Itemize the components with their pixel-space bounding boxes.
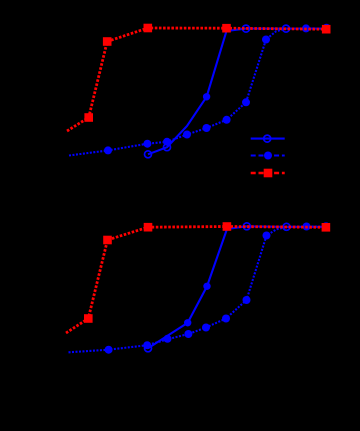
top blue solid curve <box>148 29 327 155</box>
bottom blue filled circle markers <box>105 222 330 354</box>
top blue open circle markers <box>145 25 290 158</box>
legend dashed circle entry <box>251 152 285 160</box>
bottom red square markers <box>84 222 330 323</box>
bottom blue solid curve <box>148 226 327 348</box>
top red dashed curve <box>67 28 326 131</box>
top red square markers <box>84 24 330 122</box>
legend red square entry <box>251 169 285 178</box>
top blue dashed curve <box>69 28 327 155</box>
bottom blue open circle markers <box>145 223 291 352</box>
legend solid line entry <box>251 135 285 142</box>
bottom blue dashed curve <box>69 227 327 353</box>
top blue filled circle markers <box>104 24 331 155</box>
bottom red dashed curve <box>66 227 326 334</box>
